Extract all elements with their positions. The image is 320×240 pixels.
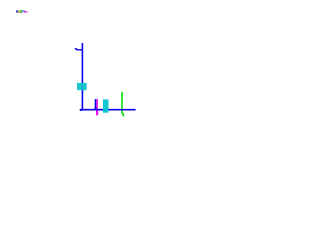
wire: horizontal bottom net [80,109,136,111]
probe line (magenta) [96,99,98,115]
capacitor C1 lead jog (green, lower) [122,114,123,117]
probe tip (magenta, thick lower) [96,110,98,115]
capacitor C1 lead (green, upper) [121,92,123,114]
wire: vertical main net [81,43,83,110]
junction at node A [95,108,97,111]
resistor R2 body [103,99,109,112]
net stub flag (blue hook) [75,49,83,50]
wire: vertical branch to node A [95,99,97,110]
wire: corner fill [80,109,82,111]
resistor R1 body [77,83,87,90]
sheet title text (tiny, subpixel-coloured) [16,10,28,13]
